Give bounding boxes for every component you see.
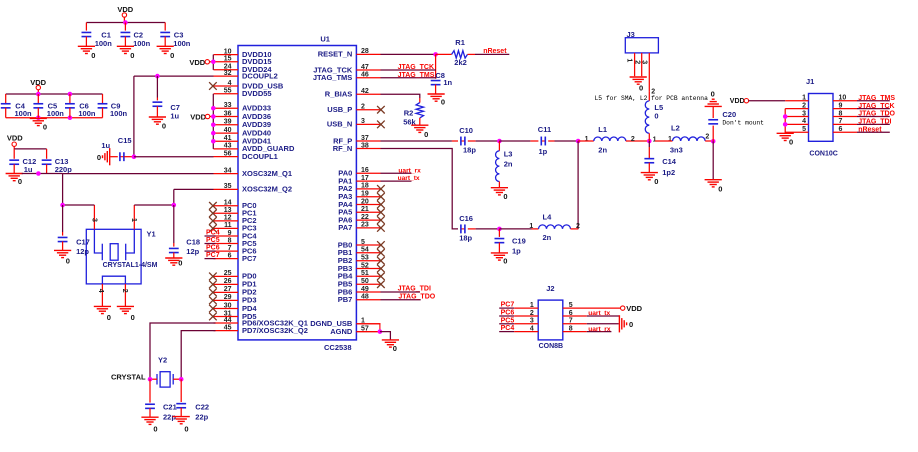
- svg-text:32: 32: [224, 70, 232, 77]
- svg-text:12p: 12p: [186, 247, 199, 256]
- inductor L5: [648, 91, 650, 101]
- no-connect X (U1 left): [209, 217, 217, 225]
- no-connect X (U1 right): [377, 201, 385, 209]
- no-connect X (U1 left): [209, 82, 217, 90]
- U1 left pin 29 PD3: [214, 299, 239, 301]
- U1 right pin 21 PA5: [356, 211, 380, 213]
- J1 left pin 1: [785, 100, 808, 102]
- U1 left pin 39 AVDD39: [214, 124, 239, 126]
- svg-text:1p: 1p: [512, 246, 521, 255]
- svg-text:C18: C18: [186, 237, 200, 246]
- junction RESET/C8: [433, 52, 438, 57]
- no-connect X (U1 right): [377, 265, 385, 273]
- U1 left pin 45 PD7/XOSC32K_Q2: [214, 330, 239, 332]
- svg-text:6: 6: [839, 126, 843, 133]
- svg-text:2: 2: [121, 289, 128, 293]
- svg-text:PC5: PC5: [501, 317, 515, 324]
- svg-text:0: 0: [131, 313, 135, 322]
- svg-text:1n: 1n: [443, 78, 452, 87]
- svg-text:100n: 100n: [110, 109, 128, 118]
- svg-text:13: 13: [224, 207, 232, 214]
- svg-text:20: 20: [361, 198, 369, 205]
- svg-text:L3: L3: [504, 149, 513, 158]
- svg-text:C20: C20: [722, 110, 736, 119]
- junction bottom rail at C6: [68, 115, 73, 120]
- wire C11 to node2: [555, 140, 579, 142]
- ground under C18: [165, 257, 182, 259]
- svg-text:1: 1: [668, 136, 672, 143]
- svg-text:VDD: VDD: [730, 98, 745, 105]
- U1 right pin 22 PA6: [356, 219, 380, 221]
- wire C12 ground to C13 / XOSC net: [22, 173, 63, 175]
- no-connect X (U1 right): [377, 121, 385, 129]
- svg-text:8: 8: [228, 237, 232, 244]
- U1 left pin 11 PC3: [214, 227, 239, 229]
- svg-text:uart_tx: uart_tx: [398, 175, 420, 182]
- svg-text:JTAG_TDO: JTAG_TDO: [398, 293, 435, 300]
- net label JTAG_TMS (U1): [381, 77, 437, 79]
- power symbol VDD (J2): [621, 306, 625, 310]
- J1 left pin 3: [785, 116, 808, 118]
- svg-text:2: 2: [361, 104, 365, 111]
- no-connect X (U1 left): [209, 313, 217, 321]
- svg-text:JTAG_TCK: JTAG_TCK: [858, 103, 894, 110]
- svg-text:100n: 100n: [95, 39, 113, 48]
- svg-text:3: 3: [641, 60, 648, 64]
- svg-text:0: 0: [178, 259, 182, 268]
- svg-text:Don't mount: Don't mount: [722, 120, 764, 127]
- svg-text:1u: 1u: [24, 165, 33, 174]
- wire VDD to J1 pin 1: [749, 100, 786, 102]
- svg-text:RF_N: RF_N: [333, 144, 353, 153]
- junction Y2 right: [179, 377, 184, 382]
- svg-text:uart_rx: uart_rx: [398, 167, 421, 174]
- svg-text:PC4: PC4: [501, 325, 515, 332]
- svg-text:0: 0: [393, 344, 397, 353]
- U1 right pin 17 PA1: [356, 180, 380, 182]
- svg-text:2: 2: [802, 102, 806, 109]
- U1 left pin 30 PD4: [214, 308, 239, 310]
- junction AVDD rail: [211, 131, 216, 136]
- ground under J3 pins 1-2: [630, 76, 647, 78]
- no-connect X (U1 right): [377, 185, 385, 193]
- U1 left pin 13 PC1: [214, 212, 239, 214]
- ground under C17: [54, 249, 71, 251]
- net label uart_rx (PA0): [381, 172, 412, 174]
- no-connect X (U1 right): [377, 241, 385, 249]
- svg-text:33: 33: [224, 102, 232, 109]
- wire C10 to node1: [476, 140, 500, 142]
- svg-text:1: 1: [626, 58, 633, 62]
- svg-text:0: 0: [654, 112, 658, 121]
- ground under L3: [491, 187, 508, 189]
- svg-text:5: 5: [802, 126, 806, 133]
- U1 left pin 31 PD5: [214, 316, 239, 318]
- svg-text:51: 51: [361, 270, 369, 277]
- svg-text:R1: R1: [455, 38, 465, 47]
- wire pin 35 XOSC32M_Q2 to Y1 (node B riser): [174, 188, 214, 190]
- svg-text:0: 0: [153, 425, 157, 434]
- svg-text:C17: C17: [76, 237, 90, 246]
- svg-text:36: 36: [224, 110, 232, 117]
- svg-text:3: 3: [530, 318, 534, 325]
- no-connect X (U1 right): [377, 106, 385, 114]
- svg-text:2: 2: [576, 223, 580, 230]
- J1 right pin 7 net JTAG_TDI: [833, 123, 857, 125]
- junction AVDD rail: [211, 106, 216, 111]
- svg-text:1p: 1p: [539, 147, 548, 156]
- U1 left pin 10 DVDD10: [214, 54, 239, 56]
- svg-text:CON10C: CON10C: [809, 151, 837, 158]
- svg-text:0: 0: [162, 121, 166, 130]
- svg-text:RESET_N: RESET_N: [318, 50, 353, 59]
- svg-text:41: 41: [224, 135, 232, 142]
- no-connect X (U1 left): [209, 202, 217, 210]
- U1 right pin 37 RF_P: [356, 140, 380, 142]
- junction node4 (L2/C20): [711, 139, 716, 144]
- junction bottom rail at C5: [36, 115, 41, 120]
- capacitor C11: [499, 140, 530, 142]
- svg-text:2n: 2n: [543, 233, 552, 242]
- junction AGND: [378, 329, 383, 334]
- J1 right pin 8 net JTAG_TDO: [833, 116, 857, 118]
- wire C16 to node5: [476, 228, 500, 230]
- ground under C5: [30, 117, 47, 119]
- svg-text:USB_N: USB_N: [327, 120, 352, 129]
- junction on C13 bottom wire: [36, 171, 41, 176]
- net label uart_tx (PA1): [381, 180, 412, 182]
- ground under Y1 pin 2: [117, 305, 134, 307]
- U1 left pin 27 PD2: [214, 291, 239, 293]
- capacitor C21: [149, 379, 151, 402]
- svg-text:VDD: VDD: [189, 58, 205, 67]
- svg-text:0: 0: [718, 185, 722, 194]
- wire VDD rail to pins 10-24: [212, 55, 214, 70]
- Y1 pin 1 wire: [133, 205, 135, 229]
- U1 left pin 41 AVDD41: [214, 140, 239, 142]
- no-connect X (U1 right): [377, 209, 385, 217]
- U1 left pin 33 AVDD33: [214, 107, 239, 109]
- no-connect X (U1 right): [377, 257, 385, 265]
- no-connect X (U1 right): [377, 249, 385, 257]
- svg-text:35: 35: [224, 183, 232, 190]
- svg-text:14: 14: [224, 200, 232, 207]
- svg-text:1: 1: [585, 136, 589, 143]
- svg-text:C15: C15: [118, 136, 132, 145]
- svg-text:42: 42: [361, 88, 369, 95]
- svg-text:C16: C16: [459, 214, 473, 223]
- svg-text:3: 3: [361, 118, 365, 125]
- U1 left pin 24 DVDD24: [214, 69, 239, 71]
- svg-text:44: 44: [224, 317, 232, 324]
- junction Y2 left: [148, 377, 153, 382]
- svg-text:46: 46: [361, 72, 369, 79]
- svg-text:29: 29: [224, 294, 232, 301]
- svg-text:JTAG_TMS: JTAG_TMS: [398, 72, 435, 79]
- svg-text:JTAG_TCK: JTAG_TCK: [398, 64, 434, 71]
- capacitor C6: [69, 94, 71, 104]
- svg-text:49: 49: [361, 286, 369, 293]
- U1 left pin 36 AVDD36: [214, 116, 239, 118]
- J1 right pin 6 net nReset: [833, 131, 857, 133]
- svg-text:0: 0: [18, 177, 22, 186]
- J2 left pin 3 net PC5: [499, 323, 514, 325]
- J1 right pin 10 net JTAG_TMS: [833, 100, 857, 102]
- wire pin 32 DCOUPL2 to C7/C15 node: [134, 75, 214, 77]
- capacitor C12: [13, 149, 15, 159]
- svg-text:XOSC32M_Q2: XOSC32M_Q2: [242, 185, 292, 194]
- svg-text:0: 0: [184, 425, 188, 434]
- wire VDD rail (C12-C13): [14, 148, 46, 150]
- svg-text:JTAG_TDI: JTAG_TDI: [858, 119, 891, 126]
- resistor R1: [436, 53, 452, 55]
- no-connect X (U1 left): [209, 273, 217, 281]
- svg-text:12: 12: [224, 215, 232, 222]
- svg-text:0: 0: [107, 313, 111, 322]
- svg-text:100n: 100n: [173, 39, 191, 48]
- junction node3 (L1/L5/L2/C14): [647, 139, 652, 144]
- U1 right pin 54 PB1: [356, 252, 380, 254]
- svg-text:0: 0: [503, 256, 507, 265]
- net label JTAG_TDO (PB7): [381, 299, 421, 301]
- svg-text:53: 53: [361, 255, 369, 262]
- svg-text:4: 4: [802, 118, 806, 125]
- svg-text:0: 0: [711, 90, 715, 99]
- svg-text:XOSC32M_Q1: XOSC32M_Q1: [242, 169, 292, 178]
- svg-text:C22: C22: [195, 402, 209, 411]
- svg-text:4: 4: [97, 289, 104, 293]
- U1 right pin 53 PB2: [356, 260, 380, 262]
- svg-text:8: 8: [839, 110, 843, 117]
- U1 left pin 40 AVDD40: [214, 132, 239, 134]
- svg-text:47: 47: [361, 64, 369, 71]
- capacitor C10: [452, 140, 458, 142]
- capacitor C4: [5, 94, 7, 104]
- ground under C19: [491, 252, 508, 254]
- U1 right pin 2 USB_P: [356, 109, 380, 111]
- J2 right pin 5 to VDD: [563, 307, 621, 309]
- svg-text:U1: U1: [320, 35, 330, 44]
- svg-text:0: 0: [789, 138, 793, 147]
- inductor L3: [498, 141, 500, 151]
- svg-text:52: 52: [361, 262, 369, 269]
- svg-text:VDD: VDD: [7, 133, 23, 142]
- no-connect X (U1 left): [209, 297, 217, 305]
- svg-text:21: 21: [361, 206, 369, 213]
- U1 right pin 52 PB3: [356, 268, 380, 270]
- svg-text:uart_tx: uart_tx: [588, 310, 610, 317]
- svg-text:JTAG_TMS: JTAG_TMS: [313, 73, 352, 82]
- svg-text:L2: L2: [671, 123, 680, 132]
- wire AVDD rail pins 55-43: [212, 94, 214, 149]
- no-connect X (U1 right): [377, 193, 385, 201]
- svg-text:39: 39: [224, 119, 232, 126]
- svg-text:100n: 100n: [15, 109, 33, 118]
- net label JTAG_TDI (PB6): [381, 291, 421, 293]
- svg-text:45: 45: [224, 324, 232, 331]
- U1 left pin 14 PC0: [214, 205, 239, 207]
- U1 right pin 5 PB0: [356, 244, 380, 246]
- U1 right pin 18 PA2: [356, 188, 380, 190]
- capacitor C8: [435, 54, 437, 78]
- wire R_BIAS to R2: [381, 94, 420, 98]
- U1 left pin 34 XOSC32M_Q1: [214, 173, 239, 175]
- svg-text:CC2538: CC2538: [324, 343, 352, 352]
- U1 left pin 56 DCOUPL1: [214, 156, 239, 158]
- U1 right pin 1 DGND_USB: [356, 323, 380, 325]
- junction node B (pin35/C18/Y1p1): [172, 203, 177, 208]
- svg-text:1: 1: [653, 136, 657, 143]
- U1 right pin 28 RESET_N: [356, 53, 380, 55]
- junction node2 (C11/L1/L4): [576, 139, 581, 144]
- svg-text:PA7: PA7: [338, 223, 352, 232]
- junction top rail at C5: [36, 92, 41, 97]
- ground under C2: [117, 45, 134, 47]
- ground under C22: [173, 416, 190, 418]
- svg-text:VDD: VDD: [190, 113, 206, 122]
- svg-text:15: 15: [224, 56, 232, 63]
- svg-text:J1: J1: [806, 77, 814, 86]
- svg-text:8: 8: [569, 325, 573, 332]
- op-amp U1 body (CC2538 MCU rectangle): [238, 46, 356, 340]
- junction node5 (C16/C19/L4): [497, 227, 502, 232]
- U1 left pin 44 PD6/XOSC32K_Q1: [214, 322, 239, 324]
- svg-text:C10: C10: [459, 126, 473, 135]
- svg-text:0: 0: [43, 123, 47, 132]
- svg-text:37: 37: [361, 135, 369, 142]
- svg-text:0: 0: [639, 84, 643, 93]
- svg-text:nReset: nReset: [483, 48, 507, 55]
- J2 left pin 1 net PC7: [499, 307, 514, 309]
- svg-text:2: 2: [631, 136, 635, 143]
- ground under J1 pin5: [777, 132, 794, 134]
- svg-text:R_BIAS: R_BIAS: [325, 90, 353, 99]
- svg-text:PB7: PB7: [338, 295, 353, 304]
- U1 left pin 9 PC4: [214, 235, 239, 237]
- svg-text:L5 for SMA, L2 for PCB antenna: L5 for SMA, L2 for PCB antenna: [595, 95, 709, 102]
- svg-text:11: 11: [224, 222, 232, 229]
- svg-text:C11: C11: [538, 125, 551, 134]
- svg-text:1u: 1u: [170, 111, 179, 120]
- capacitor C19: [498, 229, 500, 237]
- ground under C12: [6, 173, 23, 175]
- capacitor C7: [156, 76, 158, 97]
- junction on VDD rail at C2: [123, 20, 128, 25]
- ground under R2: [411, 124, 428, 126]
- U1 left pin 8 PC5: [214, 243, 239, 245]
- svg-text:1: 1: [802, 95, 806, 102]
- capacitor C5: [37, 94, 39, 104]
- svg-text:PC7: PC7: [501, 302, 515, 309]
- svg-text:0: 0: [654, 177, 658, 186]
- svg-text:30: 30: [224, 302, 232, 309]
- ground under C3: [157, 45, 174, 47]
- no-connect X (U1 left): [209, 225, 217, 233]
- svg-text:R2: R2: [404, 109, 414, 118]
- svg-text:9: 9: [228, 230, 232, 237]
- svg-text:C14: C14: [662, 157, 677, 166]
- svg-text:50: 50: [361, 278, 369, 285]
- wire pin 56 DCOUPL1 to C15: [134, 156, 214, 158]
- svg-text:3: 3: [802, 110, 806, 117]
- inverted ground above C20: [712, 98, 715, 100]
- junction node1 (C10/C11/L3): [497, 139, 502, 144]
- capacitor C22: [180, 379, 182, 402]
- svg-text:JTAG_TMS: JTAG_TMS: [858, 95, 895, 102]
- svg-text:0: 0: [66, 257, 70, 266]
- net label nReset (R1): [475, 53, 509, 55]
- svg-text:9: 9: [839, 102, 843, 109]
- svg-text:12p: 12p: [76, 247, 89, 256]
- ground under C7: [149, 116, 166, 118]
- svg-text:27: 27: [224, 286, 232, 293]
- U1 left pin 15 DVDD15: [214, 61, 239, 63]
- wire RF_N down: [381, 149, 459, 229]
- svg-text:DCOUPL1: DCOUPL1: [242, 152, 278, 161]
- U1 left pin 7 PC6: [214, 250, 239, 252]
- svg-text:1: 1: [530, 302, 534, 309]
- svg-text:C21: C21: [163, 402, 177, 411]
- svg-text:7: 7: [228, 245, 232, 252]
- svg-text:6: 6: [228, 252, 232, 259]
- U1 right pin 49 PB6: [356, 291, 380, 293]
- U1 right pin 38 RF_N: [356, 148, 380, 150]
- svg-text:7: 7: [569, 318, 573, 325]
- ground under Y1 pin 4: [94, 305, 111, 307]
- svg-text:100n: 100n: [78, 109, 96, 118]
- svg-text:18p: 18p: [459, 234, 472, 243]
- U1 left pin 26 PD1: [214, 283, 239, 285]
- svg-text:48: 48: [361, 294, 369, 301]
- J2 left pin 2 net PC6: [499, 315, 514, 317]
- capacitor C2: [124, 23, 126, 31]
- svg-text:17: 17: [361, 175, 369, 182]
- capacitor C13: [46, 149, 48, 159]
- junction top rail at C6: [68, 92, 73, 97]
- no-connect X (U1 left): [209, 210, 217, 218]
- capacitor C17: [62, 205, 64, 232]
- U1 right pin 47 JTAG_TCK: [356, 69, 380, 71]
- svg-text:USB_P: USB_P: [327, 105, 352, 114]
- junction J1 pin3: [783, 114, 788, 119]
- wire DGND_USB pin1 to AGND: [356, 324, 380, 332]
- svg-text:nReset: nReset: [858, 127, 882, 134]
- svg-text:C19: C19: [512, 237, 526, 246]
- svg-text:AGND: AGND: [330, 327, 353, 336]
- no-connect X (U1 left): [209, 305, 217, 313]
- no-connect X (U1 left): [209, 281, 217, 289]
- capacitor C16: [461, 228, 465, 230]
- J1 left pin 4: [785, 123, 808, 125]
- U1 right pin 51 PB4: [356, 275, 380, 277]
- ground under C14: [641, 172, 658, 174]
- rotated ground at J2 pin 7: [618, 315, 620, 332]
- svg-text:1p2: 1p2: [662, 168, 675, 177]
- svg-text:16: 16: [361, 167, 369, 174]
- no-connect X (U1 left): [209, 289, 217, 297]
- svg-text:2n: 2n: [504, 159, 513, 168]
- capacitor C1: [85, 23, 87, 31]
- J2 right pin 8 net uart_rx: [563, 331, 587, 333]
- Y1 pin 2 wire: [124, 284, 126, 307]
- J2 right pin 6 net uart_tx: [563, 315, 587, 317]
- capacitor C18: [173, 205, 175, 243]
- svg-text:3n3: 3n3: [670, 145, 683, 154]
- wire pin 44 to Y2 left: [150, 323, 216, 379]
- svg-text:100n: 100n: [133, 39, 151, 48]
- junction AVDD rail: [211, 114, 216, 119]
- svg-text:220p: 220p: [55, 165, 73, 174]
